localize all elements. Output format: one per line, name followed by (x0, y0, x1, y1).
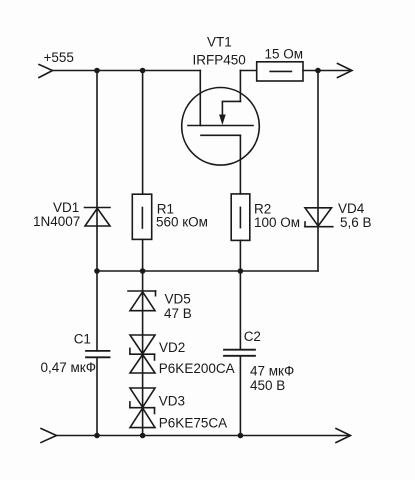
svg-text:VD5: VD5 (165, 292, 191, 307)
svg-text:100 Ом: 100 Ом (254, 215, 300, 230)
svg-text:C2: C2 (244, 329, 261, 344)
svg-text:0,47 мкФ: 0,47 мкФ (41, 360, 96, 375)
svg-text:+555: +555 (44, 50, 74, 65)
svg-text:VT1: VT1 (207, 35, 232, 50)
svg-text:47 мкФ: 47 мкФ (250, 364, 294, 379)
svg-text:47 В: 47 В (164, 306, 192, 321)
svg-text:15 Ом: 15 Ом (265, 46, 304, 61)
svg-text:560 кОм: 560 кОм (156, 215, 208, 230)
svg-text:VD3: VD3 (159, 394, 185, 409)
svg-text:450 В: 450 В (250, 378, 285, 393)
svg-text:C1: C1 (74, 332, 91, 347)
svg-text:5,6 В: 5,6 В (340, 215, 372, 230)
svg-text:VD2: VD2 (159, 340, 185, 355)
svg-text:VD1: VD1 (53, 200, 79, 215)
svg-text:P6KE75CA: P6KE75CA (159, 416, 227, 431)
svg-text:P6KE200CA: P6KE200CA (159, 361, 235, 376)
svg-text:1N4007: 1N4007 (33, 214, 80, 229)
svg-text:IRFP450: IRFP450 (193, 53, 246, 68)
svg-text:VD4: VD4 (338, 201, 365, 216)
